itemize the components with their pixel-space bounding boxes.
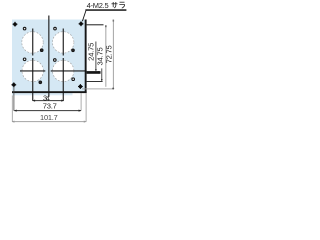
centerline BR vertical / extension to 34 dim: [63, 58, 64, 101]
countersunk hole BR: [78, 84, 83, 89]
bottom dim line 34: [33, 99, 64, 102]
centerline BR horizontal: [51, 70, 87, 71]
screw hole BL-a: [23, 58, 26, 61]
centerline BL horizontal: [20, 70, 45, 71]
dim 34 arrows: [33, 100, 64, 102]
svg-text:4-M2.5: 4-M2.5: [87, 1, 109, 10]
right dim line D (gray): [112, 20, 115, 89]
label katakana ra: [119, 2, 124, 8]
bottom dim line 101.7 (gray): [12, 120, 86, 123]
screw hole TR-b: [72, 49, 75, 52]
ext line 101.7 left: [11, 95, 14, 121]
dim 73.7 arrows: [14, 110, 81, 112]
right dim line B: [100, 68, 103, 81]
ext line 73.7 right: [80, 93, 83, 111]
main vertical centerline: [48, 16, 49, 97]
dim D arrow: [112, 88, 114, 90]
screw hole BR-a: [54, 59, 57, 62]
bottom dim line 73.7: [14, 109, 81, 112]
screw hole BR-b: [72, 78, 75, 81]
svg-text:73.7: 73.7: [43, 102, 57, 111]
background: [0, 0, 130, 130]
plate bottom edge line: [12, 91, 87, 93]
ext line 73.7 left: [13, 87, 16, 111]
right ext line small-hole row: [87, 80, 103, 83]
svg-text:101.7: 101.7: [40, 113, 58, 122]
screw hole TL-b: [40, 49, 43, 52]
right ext line top (corner hole row): [87, 24, 104, 25]
label katakana sa: [112, 2, 118, 8]
right ext line bottom corner row (gray): [82, 88, 114, 91]
svg-text:72.75: 72.75: [104, 45, 113, 63]
BR center row extension line (thick, to right dims): [87, 71, 101, 74]
dim 101.7 arrows: [12, 121, 86, 123]
right dim line C (gray): [104, 25, 107, 87]
leader line to countersunk hole TR: [82, 10, 86, 21]
centerline TL vertical: [32, 29, 33, 56]
right dim line A: [95, 42, 98, 72]
plate lower flange strip: [12, 93, 73, 95]
centerline BL vertical / extension to 34 dim: [32, 58, 33, 101]
screw hole TL-a: [23, 27, 26, 30]
centerline TR vertical: [63, 29, 64, 56]
hole TR circle: [53, 32, 74, 53]
plate body: [12, 20, 87, 94]
ext line 101.7 right: [85, 93, 88, 122]
hole BR circle: [53, 60, 74, 81]
label underline: [85, 9, 126, 11]
hole TL circle: [22, 32, 43, 53]
countersunk hole BL: [11, 82, 16, 87]
dim B arrows: [101, 79, 103, 81]
plate right edge line: [85, 20, 87, 94]
svg-text:24.75: 24.75: [87, 43, 96, 61]
hole BL circle: [22, 60, 43, 81]
countersunk hole TL: [13, 22, 18, 27]
screw hole BL-b: [39, 81, 42, 84]
countersunk hole TR: [79, 21, 84, 26]
screw hole TR-a: [54, 27, 57, 30]
dim A arrows: [95, 69, 97, 71]
